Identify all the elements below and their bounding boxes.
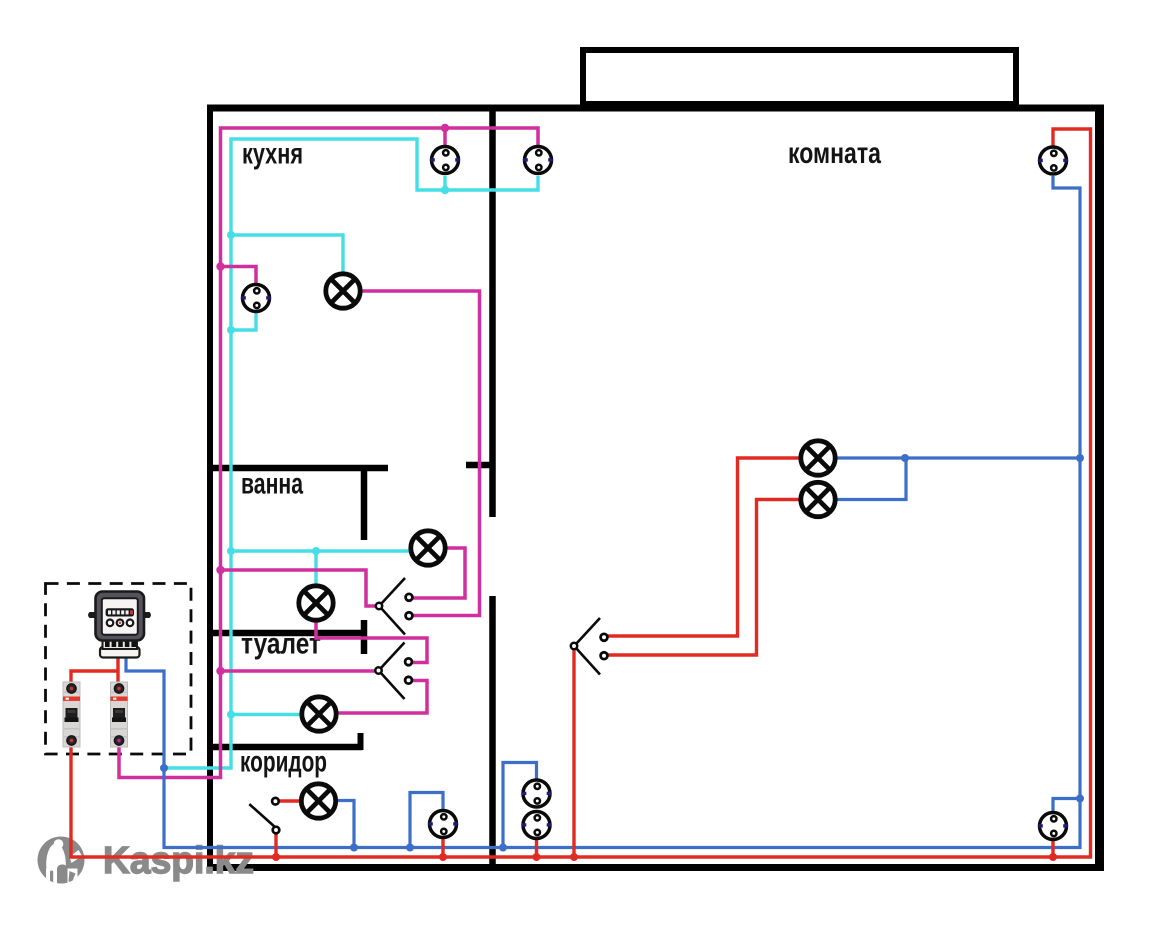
junction blue 410,847 — [406, 844, 414, 852]
socket S6a room double top — [522, 780, 551, 807]
socket S5 corridor — [428, 811, 457, 838]
wall right — [1095, 105, 1104, 871]
wall bath top left — [210, 465, 388, 472]
wire cyan stub socket S1 bottom — [443, 176, 446, 190]
balcony outline — [583, 50, 1016, 104]
lamp corridor — [301, 784, 335, 818]
wall central lower — [489, 596, 496, 868]
wire magenta toilet lamp to toilet switch contact1 — [316, 620, 427, 663]
svg-text:коридор: коридор — [240, 746, 327, 779]
lamp bath — [411, 531, 445, 565]
wire cyan stub toilet lamp top — [314, 551, 317, 588]
wall top — [207, 105, 1104, 112]
breaker 1 — [63, 682, 80, 747]
junction blue 1080,798 — [1076, 795, 1084, 803]
socket S3 kitchen — [241, 285, 270, 312]
wire magenta kitchen lamp to bath switch contact2 — [360, 291, 480, 616]
wire blue bus to double socket S6 — [503, 763, 537, 847]
lamp room 2 — [801, 482, 835, 516]
kaspi.kz watermark logo — [38, 837, 85, 887]
junction blue 905,458 — [901, 454, 909, 462]
junction red 536,857 — [533, 853, 541, 861]
wire cyan branch hall lamp — [231, 713, 302, 716]
wall left — [207, 105, 213, 868]
wire magenta feed toilet switch pivot — [221, 669, 376, 673]
junction magenta 220,570 — [216, 566, 224, 574]
switch bath 2-gang — [376, 578, 413, 635]
junction magenta 220,266 — [216, 262, 224, 270]
junction blue 354,847 — [350, 844, 358, 852]
wire magenta feed bath switch pivot — [221, 570, 377, 606]
socket S4 room top right — [1038, 147, 1067, 174]
junction blue 503,847 — [499, 844, 507, 852]
svg-text:кухня: кухня — [242, 138, 303, 171]
junction magenta 220,671 — [216, 667, 224, 675]
wire cyan branch bath lamp — [231, 549, 410, 552]
junction blue 1080,458 — [1076, 454, 1084, 462]
socket S1 kitchen wall — [430, 147, 459, 174]
socket S6b room double bottom — [522, 812, 551, 839]
wire cyan branch kitchen socket S3 — [231, 312, 256, 330]
wire red corridor switch contact1 to hall lamp — [279, 799, 301, 802]
wire magenta main: breaker2 to kitchen sockets — [119, 128, 538, 778]
wall toilet bottom — [210, 744, 362, 751]
junction cyan 445,190 — [441, 186, 449, 194]
lamp hall — [302, 697, 336, 731]
wire blue bus to corridor socket S5 — [410, 793, 443, 847]
junction magenta 445,128 — [441, 124, 449, 132]
wire blue branch to bottom-right socket S7 — [1053, 799, 1080, 813]
wire red room switch pivot to bus — [572, 649, 575, 857]
wire red corridor switch to bus — [274, 833, 277, 857]
lamp room 1 — [801, 441, 835, 475]
wire red meter to breakers — [71, 655, 118, 683]
junction red 574,857 — [570, 853, 578, 861]
wall toilet bottom jamb — [358, 733, 364, 750]
wall toilet top jamb — [361, 620, 368, 654]
wire magenta bath lamp to bath switch contact1 — [413, 548, 465, 598]
junction red 276,857 — [272, 853, 280, 861]
wall central upper — [489, 108, 496, 517]
wire red room switch contact2 to lamp2 — [607, 500, 801, 656]
wire cyan branch kitchen lamp — [231, 235, 343, 276]
junction cyan 231,551 — [227, 547, 235, 555]
wire red stub double socket bottom — [535, 840, 538, 857]
wire red room switch contact1 to lamp1 — [607, 458, 801, 636]
electric meter icon — [88, 592, 151, 658]
wire magenta branch kitchen socket S3 — [221, 267, 257, 285]
junction blue 164,768 — [160, 764, 168, 772]
wire red stub corridor socket S5 bottom — [441, 838, 444, 857]
wire magenta toilet switch contact2 to hall lamp — [336, 681, 427, 714]
wire magenta stub socket S1 top — [443, 128, 447, 146]
switch toilet 2-gang — [375, 643, 412, 700]
junction cyan 231,330 — [227, 326, 235, 334]
socket S7 room bottom right — [1038, 813, 1067, 840]
breaker 2 — [111, 682, 128, 747]
wire blue hall lamp to bus — [336, 801, 354, 847]
svg-text:ванна: ванна — [241, 468, 303, 501]
junction cyan 231,714 — [227, 711, 235, 719]
junction red 1053,857 — [1049, 853, 1057, 861]
switch room 2-gang — [571, 618, 608, 675]
wire red main: breaker1 to bus to top-right socket — [71, 129, 1091, 857]
svg-text:туалет: туалет — [241, 628, 321, 661]
lamp kitchen — [326, 274, 360, 308]
lamp toilet — [299, 586, 333, 620]
junction cyan 231,235 — [227, 231, 235, 239]
wire blue room lamp1 to right riser — [835, 456, 1080, 459]
svg-text:комната: комната — [788, 137, 881, 170]
junction cyan 316,551 — [312, 547, 320, 555]
wire red stub socket S7 bottom — [1051, 840, 1054, 857]
wall bath top right tick — [466, 462, 492, 469]
wire cyan main: bus bottom to kitchen loop — [164, 139, 538, 768]
wire blue main: meter to bus to right wall socket — [126, 176, 1080, 848]
socket S2 room left — [523, 147, 552, 174]
wall bath inner vertical — [361, 466, 368, 540]
meter panel dashed box — [46, 584, 192, 755]
wall bottom — [207, 864, 1104, 871]
wall toilet top — [210, 630, 361, 637]
wire blue room lamp2 loop — [835, 459, 906, 500]
junction red 443,857 — [439, 853, 447, 861]
switch corridor single — [249, 798, 279, 833]
